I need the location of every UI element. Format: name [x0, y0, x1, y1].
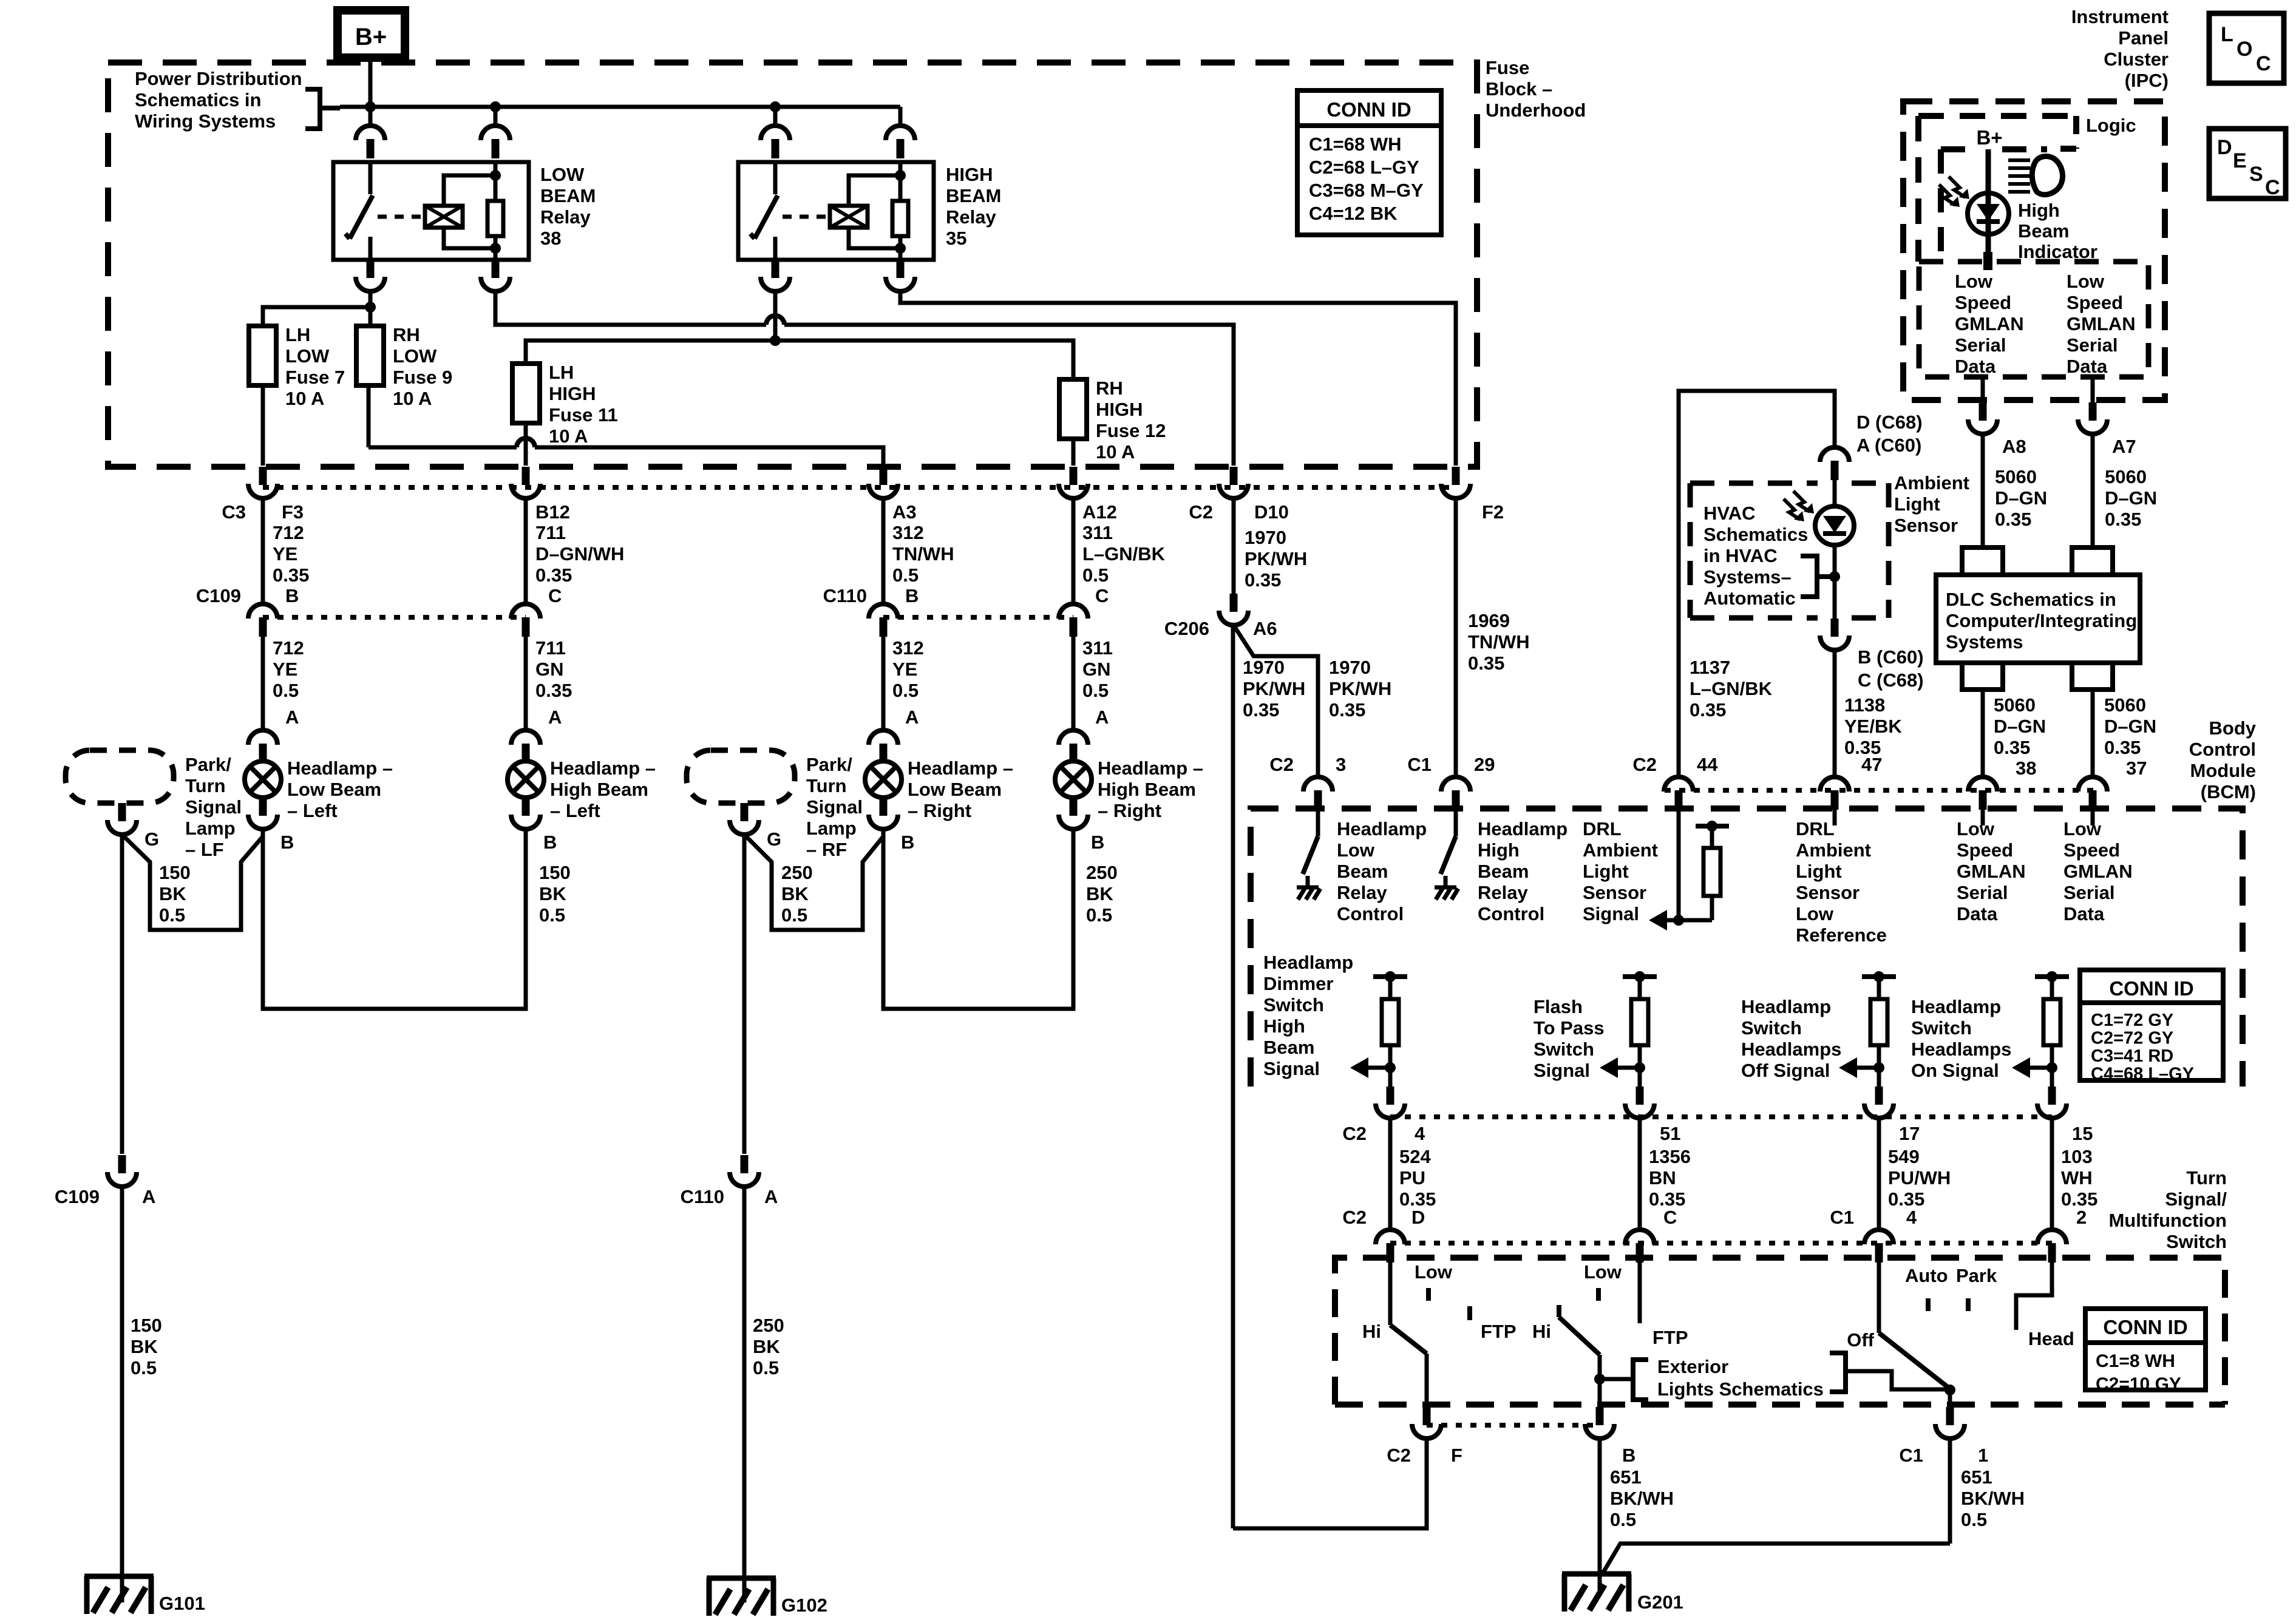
svg-text:Headlamp –: Headlamp – [287, 758, 393, 779]
svg-text:0.5: 0.5 [781, 904, 807, 926]
svg-text:Speed: Speed [1955, 292, 2011, 313]
svg-text:C: C [1095, 585, 1109, 606]
svg-text:A: A [905, 707, 919, 728]
wire fuse7 to C3 F3 [261, 385, 265, 466]
svg-text:D (C68): D (C68) [1856, 412, 1923, 433]
connector low beam right pin B [869, 798, 914, 853]
svg-text:0.35: 0.35 [1994, 737, 2030, 758]
wire fuse12 to A12 [1072, 439, 1076, 466]
svg-text:BK: BK [781, 883, 809, 904]
connector C109 pin B [248, 604, 277, 637]
svg-text:Low: Low [1415, 1261, 1453, 1283]
svg-text:Cluster: Cluster [2104, 49, 2169, 70]
wire low beam right B down [883, 829, 1073, 1009]
svg-text:Panel: Panel [2118, 27, 2169, 49]
svg-text:Block –: Block – [1486, 78, 1552, 100]
svg-text:B+: B+ [355, 24, 387, 50]
svg-text:0.35: 0.35 [2104, 737, 2141, 758]
wire fuse9 to A3 [369, 385, 883, 466]
label F2 [1482, 501, 1504, 523]
wire IPC pin A8 [1981, 377, 1985, 402]
svg-text:Data: Data [2067, 356, 2108, 377]
svg-text:Sensor: Sensor [1796, 882, 1860, 903]
svg-text:15: 15 [2072, 1123, 2093, 1144]
wire 1970 PK/WH 0.35 labels pair [1243, 657, 1391, 720]
svg-text:C3=68 M–GY: C3=68 M–GY [1309, 180, 1424, 201]
svg-text:5060: 5060 [1995, 466, 2037, 487]
svg-text:– RF: – RF [806, 839, 847, 860]
svg-text:Signal: Signal [1583, 903, 1639, 924]
svg-text:712: 712 [273, 522, 304, 543]
svg-text:BK: BK [539, 883, 566, 904]
svg-text:0.5: 0.5 [892, 680, 919, 701]
wire C3 to C109 left [261, 498, 265, 603]
connector TSMF C2 pin F [1387, 1407, 1462, 1466]
svg-text:Flash: Flash [1533, 996, 1583, 1017]
svg-text:B: B [280, 832, 294, 853]
svg-text:B: B [1091, 832, 1104, 853]
svg-text:0.35: 0.35 [1329, 699, 1365, 720]
wire 711 GN 0.35 label [535, 637, 572, 728]
svg-text:C2: C2 [1269, 754, 1294, 775]
svg-text:C: C [1663, 1207, 1677, 1228]
svg-text:Beam: Beam [2018, 220, 2069, 242]
wire 524 PU 0.35 label [1390, 1118, 1436, 1229]
svg-text:DLC Schematics in: DLC Schematics in [1946, 589, 2116, 610]
svg-text:Data: Data [1957, 903, 1998, 924]
svg-text:Turn: Turn [185, 775, 226, 796]
svg-text:Switch: Switch [1741, 1017, 1802, 1039]
label Ambient Light Sensor [1894, 472, 1969, 536]
svg-text:L–GN/BK: L–GN/BK [1082, 543, 1166, 564]
svg-text:Relay: Relay [946, 206, 996, 228]
svg-text:150: 150 [159, 862, 191, 883]
svg-text:10 A: 10 A [1096, 441, 1135, 463]
svg-text:651: 651 [1610, 1466, 1642, 1488]
svg-text:Exterior: Exterior [1657, 1356, 1728, 1377]
svg-text:High Beam: High Beam [1098, 779, 1196, 800]
label HIGH BEAM Relay 35 [946, 164, 1001, 249]
wire 250 BK 0.5 to G102 [744, 1187, 784, 1602]
svg-text:Beam: Beam [1337, 861, 1388, 882]
wire 5060 D-GN 0.35 label pin38 [1994, 694, 2046, 779]
svg-text:C2: C2 [1342, 1207, 1367, 1228]
svg-text:Auto: Auto [1905, 1265, 1948, 1286]
label HVAC Schematics in HVAC Systems Automatic [1703, 503, 1808, 609]
svg-text:Fuse 9: Fuse 9 [393, 367, 452, 388]
svg-text:BK/WH: BK/WH [1610, 1488, 1674, 1509]
svg-text:Serial: Serial [2067, 334, 2118, 356]
svg-text:Speed: Speed [2067, 292, 2123, 313]
fuse F11 LH HIGH Fuse 11 10A [512, 364, 540, 423]
svg-text:G102: G102 [781, 1595, 827, 1616]
label LOW BEAM Relay 38 [540, 164, 596, 249]
wire low beam left B down [263, 829, 526, 1009]
svg-text:Switch: Switch [1533, 1039, 1594, 1060]
svg-text:C1=8 WH: C1=8 WH [2096, 1351, 2175, 1371]
svg-text:(BCM): (BCM) [2201, 781, 2256, 802]
svg-text:G101: G101 [159, 1593, 205, 1614]
svg-text:Low Beam: Low Beam [908, 779, 1002, 800]
svg-text:Park: Park [1956, 1265, 1997, 1286]
box high beam indicator dashed [1941, 149, 2047, 262]
svg-text:712: 712 [273, 637, 304, 659]
svg-text:B: B [905, 585, 919, 606]
svg-text:1356: 1356 [1649, 1146, 1691, 1167]
svg-text:Data: Data [2063, 903, 2105, 924]
connector C3 pin F3 [248, 467, 277, 498]
wire fuse11 to B12 [524, 423, 528, 466]
svg-text:PK/WH: PK/WH [1245, 548, 1307, 569]
svg-text:BEAM: BEAM [540, 185, 596, 206]
svg-text:C4=68 L–GY: C4=68 L–GY [2091, 1065, 2194, 1084]
label RH HIGH Fuse 12 10A [1096, 378, 1166, 463]
svg-text:Low: Low [1337, 839, 1375, 861]
svg-text:PU/WH: PU/WH [1888, 1167, 1951, 1188]
wire relay38 coil to D10 [495, 291, 1234, 466]
lamp headlamp high beam right [1055, 761, 1092, 798]
dotted connector line TSMF bottom row [1427, 1423, 1600, 1428]
lamp park turn signal LF dashed outline [66, 750, 174, 803]
svg-text:On Signal: On Signal [1911, 1060, 1999, 1081]
wire A6 branch to BCM pin 3 [1234, 625, 1318, 776]
Fuse Block - Underhood dashed border [108, 63, 1477, 467]
label LH HIGH Fuse 11 10A [549, 362, 618, 447]
wire C110 C to high beam right [1072, 637, 1076, 729]
lamp headlamp high beam left [508, 761, 544, 798]
svg-text:C2: C2 [1632, 754, 1657, 775]
svg-text:A: A [764, 1186, 778, 1207]
svg-text:YE: YE [273, 543, 297, 564]
svg-text:BEAM: BEAM [946, 185, 1001, 206]
svg-text:Ambient: Ambient [1796, 839, 1871, 861]
label Park Turn Signal Lamp LF [185, 754, 242, 860]
wire 1969 TN/WH 0.35 label [1468, 610, 1530, 674]
svg-text:YE/BK: YE/BK [1844, 716, 1902, 737]
label DRL Ambient Light Sensor Low Reference [1796, 818, 1887, 946]
fuse F12 RH HIGH Fuse 12 10A [1059, 379, 1087, 439]
svg-text:D: D [2217, 136, 2232, 159]
svg-text:0.5: 0.5 [539, 904, 565, 926]
connector C110 pin A [681, 1155, 778, 1207]
connector pin B12 [511, 467, 540, 498]
svg-text:BN: BN [1649, 1167, 1676, 1188]
wire ambient sensor to BCM pin 44 [1679, 391, 1835, 776]
svg-text:Schematics: Schematics [1703, 524, 1808, 545]
connector high beam right pin A [1059, 730, 1088, 763]
svg-text:Systems–: Systems– [1703, 566, 1792, 588]
connector C2 pin D10 [1219, 467, 1248, 498]
svg-text:Control: Control [1478, 903, 1544, 924]
svg-text:35: 35 [946, 228, 966, 249]
wire DLC to BCM pin 38 [1981, 690, 1985, 776]
wire 549 PU/WH 0.35 label [1879, 1118, 1951, 1229]
wire 1137 L-GN/BK 0.35 label [1690, 657, 1773, 720]
svg-text:GN: GN [1082, 659, 1111, 680]
svg-text:0.5: 0.5 [753, 1357, 779, 1378]
svg-text:FTP: FTP [1652, 1327, 1688, 1348]
svg-text:0.5: 0.5 [1086, 904, 1112, 926]
connector BCM C1 pin 29 [1407, 754, 1495, 810]
bracket exterior lights left [1633, 1360, 1648, 1400]
svg-text:HVAC: HVAC [1703, 503, 1756, 524]
svg-text:51: 51 [1660, 1123, 1680, 1144]
svg-text:Power Distribution: Power Distribution [135, 68, 302, 89]
label Headlamp High Beam Right [1098, 758, 1203, 821]
label Instrument Panel Cluster IPC [2071, 6, 2169, 91]
svg-text:Park/: Park/ [806, 754, 852, 775]
switch headlamp head position [2016, 1263, 2074, 1349]
wire ground join right lamps [744, 835, 883, 930]
svg-text:LOW: LOW [540, 164, 585, 185]
connector BCM C2 pin 3 [1269, 754, 1346, 810]
wire exterior lights tap [1594, 1374, 1633, 1385]
svg-text:Data: Data [1955, 356, 1996, 377]
switch BCM high beam relay control driver [1435, 810, 1458, 900]
svg-text:250: 250 [781, 862, 813, 883]
svg-text:0.5: 0.5 [1961, 1509, 1987, 1530]
svg-text:Switch: Switch [1263, 994, 1324, 1015]
svg-text:LH: LH [285, 324, 310, 345]
resistor BCM headlamps off signal [1839, 971, 1896, 1086]
svg-text:O: O [2237, 38, 2252, 61]
svg-text:PK/WH: PK/WH [1243, 678, 1305, 699]
label Headlamp Switch Headlamps On Signal [1911, 996, 2011, 1081]
svg-text:1137: 1137 [1690, 657, 1730, 678]
svg-text:G: G [144, 829, 159, 850]
svg-text:2: 2 [2076, 1207, 2087, 1228]
svg-text:1970: 1970 [1243, 657, 1285, 678]
svg-text:C3: C3 [222, 501, 246, 523]
svg-text:LOW: LOW [285, 345, 330, 367]
wire B12 to C109 C [524, 498, 528, 603]
ground G101 [84, 1576, 205, 1614]
svg-text:Light: Light [1796, 861, 1842, 882]
connector high beam left pin A [511, 730, 540, 763]
svg-text:Logic: Logic [2086, 115, 2136, 136]
svg-text:711: 711 [535, 522, 566, 543]
box GMLAN dashed [1919, 262, 2148, 377]
connector low beam left pin B [248, 798, 294, 853]
svg-text:103: 103 [2061, 1146, 2093, 1167]
connector row fuse block dotted line [263, 485, 1456, 490]
label Flash To Pass Switch Signal [1533, 996, 1605, 1081]
relay K38 LOW BEAM Relay 38 [333, 162, 529, 260]
svg-text:Sensor: Sensor [1583, 882, 1646, 903]
high beam indicator LED [1939, 177, 2009, 234]
svg-text:F3: F3 [282, 501, 304, 523]
svg-text:Control: Control [1337, 903, 1404, 924]
wire 150 BK 0.5 to G101 [122, 1187, 162, 1602]
svg-text:DRL: DRL [1583, 818, 1622, 839]
svg-text:B: B [1622, 1445, 1635, 1466]
svg-text:BK: BK [1086, 883, 1113, 904]
svg-text:S: S [2249, 163, 2263, 186]
connector BCM C2 pin 4 [1342, 1086, 1425, 1144]
dotted connector line BCM bottom row 1 [1390, 1114, 2052, 1119]
wire 1138 YE/BK 0.35 label [1835, 650, 1902, 776]
tab DESC box [2209, 129, 2286, 199]
connector high beam left pin B [511, 798, 557, 853]
svg-text:Fuse: Fuse [1486, 57, 1529, 78]
svg-text:A: A [1095, 707, 1109, 728]
svg-text:High: High [1263, 1015, 1305, 1037]
svg-text:711: 711 [535, 637, 566, 659]
svg-text:250: 250 [753, 1315, 784, 1336]
dotted connector line C110 [883, 615, 1073, 620]
svg-text:High: High [2018, 200, 2060, 221]
wire 311 L-GN/BK 0.5 label [1082, 522, 1166, 606]
connector BCM pin 38 [1968, 777, 1997, 810]
svg-text:in HVAC: in HVAC [1703, 545, 1778, 566]
svg-text:0.5: 0.5 [131, 1357, 157, 1378]
svg-text:WH: WH [2061, 1167, 2093, 1188]
svg-text:0.5: 0.5 [1082, 680, 1109, 701]
svg-text:311: 311 [1082, 522, 1113, 543]
connector relay35 pin bottom-right [886, 260, 915, 291]
connector C206 pin A6 [1164, 594, 1277, 639]
svg-text:GMLAN: GMLAN [1957, 861, 2026, 882]
svg-text:Module: Module [2190, 760, 2257, 781]
svg-text:RH: RH [393, 324, 420, 345]
svg-text:BK: BK [753, 1336, 780, 1357]
svg-text:Signal: Signal [806, 796, 863, 818]
svg-text:– Right: – Right [1098, 800, 1161, 821]
conn id table fuse block [1297, 90, 1441, 235]
wire ground join left lamps [122, 835, 263, 930]
connector BCM pin 15 [2037, 1086, 2093, 1144]
svg-text:D: D [1411, 1207, 1425, 1228]
connector BCM pin 51 [1625, 1086, 1680, 1144]
icon high beam symbol [2008, 157, 2063, 195]
label DRL Ambient Light Sensor Signal [1583, 818, 1658, 924]
svg-text:Computer/Integrating: Computer/Integrating [1946, 610, 2137, 631]
svg-text:D–GN: D–GN [1994, 716, 2046, 737]
svg-text:Headlamps: Headlamps [1741, 1039, 1841, 1060]
svg-text:L–GN/BK: L–GN/BK [1690, 678, 1773, 699]
label B+ IPC [1976, 126, 2002, 149]
svg-text:Switch: Switch [1911, 1017, 1972, 1039]
wire DLC to BCM pin 37 [2091, 690, 2095, 776]
bracket HVAC link [1801, 556, 1835, 597]
svg-text:Signal: Signal [1533, 1060, 1590, 1081]
svg-text:High Beam: High Beam [550, 779, 648, 800]
svg-text:C1: C1 [1407, 754, 1432, 775]
svg-text:A12: A12 [1082, 501, 1117, 523]
svg-text:Headlamp –: Headlamp – [550, 758, 656, 779]
conn id table TSMF [2085, 1309, 2206, 1394]
svg-text:4: 4 [1415, 1123, 1425, 1144]
svg-text:C: C [548, 585, 562, 606]
wire 150 BK 0.5 label right [539, 862, 571, 926]
svg-text:Park/: Park/ [185, 754, 231, 775]
svg-text:Headlamps: Headlamps [1911, 1039, 2011, 1060]
svg-text:G201: G201 [1637, 1592, 1683, 1613]
connector C110 pin B [869, 604, 898, 637]
wire C109 C to high beam lamp left [524, 637, 528, 729]
bracket exterior lights right [1830, 1353, 1946, 1392]
svg-text:C2: C2 [1387, 1445, 1411, 1466]
wire relay35 output to fuses 11 and 12 [526, 291, 1073, 379]
svg-text:BK/WH: BK/WH [1961, 1488, 2025, 1509]
box Instrument Panel Cluster dashed [1903, 101, 2165, 400]
svg-text:LH: LH [549, 362, 574, 383]
svg-text:5060: 5060 [2104, 694, 2146, 716]
wire 311 GN 0.5 label [1082, 637, 1113, 728]
svg-text:HIGH: HIGH [549, 383, 596, 404]
svg-text:A6: A6 [1253, 618, 1277, 639]
svg-text:5060: 5060 [1994, 694, 2036, 716]
svg-text:Fuse 12: Fuse 12 [1096, 420, 1166, 441]
switch headlamp off-on [1847, 1263, 1997, 1407]
wire 5060 D-GN 0.35 label pin37 [2104, 694, 2156, 779]
connector relay38 pin top-left [356, 107, 385, 158]
svg-text:0.35: 0.35 [535, 564, 572, 586]
wire 651 BK/WH 0.5 pin 1 to G201 [1603, 1439, 2025, 1573]
connector C68 C60 pin D A [1820, 412, 1923, 480]
svg-text:Lights Schematics: Lights Schematics [1657, 1378, 1824, 1400]
resistor BCM flash to pass signal [1600, 971, 1657, 1086]
svg-text:10 A: 10 A [393, 388, 432, 409]
svg-text:Signal: Signal [1263, 1058, 1320, 1079]
wire 312 YE 0.5 label [892, 637, 924, 728]
wire A12 to C110 C [1072, 498, 1076, 603]
svg-text:B: B [543, 832, 557, 853]
connector pin A3 [869, 467, 898, 498]
label A12 [1082, 501, 1117, 523]
svg-text:0.35: 0.35 [273, 564, 309, 586]
svg-text:A: A [548, 707, 562, 728]
label C3 F3 [222, 501, 304, 523]
svg-text:150: 150 [539, 862, 571, 883]
svg-text:Serial: Serial [2063, 882, 2114, 903]
dotted connector line C109 [263, 615, 526, 620]
svg-text:Headlamp: Headlamp [1337, 818, 1427, 839]
svg-text:0.35: 0.35 [1995, 509, 2031, 530]
svg-text:Lamp: Lamp [806, 818, 857, 839]
svg-text:17: 17 [1899, 1123, 1920, 1144]
svg-text:Low: Low [1584, 1261, 1622, 1283]
svg-text:Hi: Hi [1362, 1321, 1381, 1342]
svg-text:– Left: – Left [550, 800, 600, 821]
svg-text:Relay: Relay [1478, 882, 1528, 903]
ground G201 [1562, 1574, 1683, 1613]
svg-text:10 A: 10 A [285, 388, 324, 409]
wire A6 long run to pin F [1233, 625, 1427, 1528]
connector C110 pin C [1059, 604, 1088, 637]
connector C60 C68 pin B C [1820, 619, 1924, 691]
svg-text:Turn: Turn [806, 775, 847, 796]
wire relay35 coil to F2 [900, 291, 1456, 466]
wire C109 B to low beam lamp left [261, 637, 265, 729]
wire BCM pin 44 to signal arrow [1649, 810, 1712, 931]
svg-text:312: 312 [892, 637, 924, 659]
label Headlamp Low Beam Relay Control [1337, 818, 1427, 924]
power feed B+ terminal [338, 10, 405, 58]
label LH LOW Fuse 7 10A [285, 324, 345, 409]
label Park Turn Signal Lamp RF [806, 754, 863, 860]
wire park turn G to C109 A [120, 835, 124, 1154]
label C110 B [823, 585, 867, 606]
svg-text:B: B [285, 585, 299, 606]
svg-text:Wiring Systems: Wiring Systems [135, 110, 276, 132]
wire 103 WH 0.35 label [2052, 1118, 2097, 1229]
svg-text:Fuse 7: Fuse 7 [285, 367, 345, 388]
label Exterior Lights Schematics [1657, 1356, 1824, 1400]
svg-text:C1=72 GY: C1=72 GY [2091, 1011, 2173, 1030]
svg-text:Instrument: Instrument [2071, 6, 2169, 27]
label Headlamp High Beam Left [550, 758, 656, 821]
